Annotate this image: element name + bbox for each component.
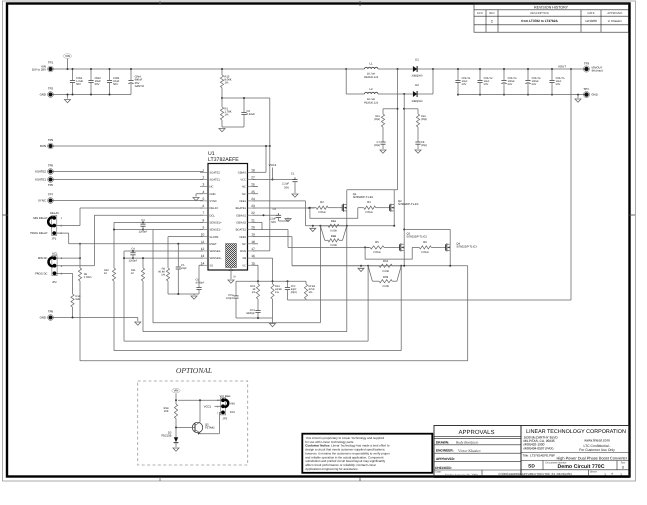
U1 left pins with numbers	[200, 171, 208, 173]
svg-text:SS: SS	[210, 264, 214, 267]
svg-text:9: 9	[203, 226, 205, 230]
svg-text:2200pF: 2200pF	[129, 259, 138, 262]
svg-text:FB: FB	[243, 257, 247, 260]
wire VEE1 pin24 route	[253, 200, 306, 202]
svg-text:GBIAS1: GBIAS1	[236, 214, 246, 217]
transistor Q2 Si7852DP-T1-E3	[386, 207, 389, 209]
svg-text:18: 18	[251, 240, 255, 244]
svg-text:R5: R5	[375, 241, 379, 244]
capacitor CIN4 680uF 35V SANYO	[130, 69, 132, 78]
wire Q5 base to divider	[176, 427, 195, 429]
svg-text:VIN: VIN	[65, 54, 70, 58]
diode D2 30BQ060	[413, 91, 417, 97]
capacitor COUT2	[479, 69, 481, 78]
svg-text:0.008: 0.008	[330, 230, 337, 233]
wire SENSE1+ pin8	[114, 221, 203, 223]
sense resistor R4B 0.008	[320, 226, 324, 241]
svg-text:APPROVED:: APPROVED:	[436, 457, 455, 461]
svg-text:ENGINEER:: ENGINEER:	[436, 449, 454, 453]
svg-text:L2: L2	[369, 87, 373, 91]
svg-text:C4: C4	[131, 247, 135, 250]
svg-text:0 Ohm: 0 Ohm	[365, 211, 373, 214]
svg-text:SLOPE: SLOPE	[210, 236, 219, 239]
svg-text:21: 21	[251, 218, 255, 222]
svg-text:16: 16	[251, 254, 255, 258]
wire divider down to RUN pin17	[269, 98, 271, 251]
svg-text:50V: 50V	[556, 83, 561, 86]
svg-text:TP5: TP5	[48, 163, 54, 167]
svg-text:Applications Engineering for a: Applications Engineering for assistance.	[305, 467, 358, 471]
svg-text:3: 3	[203, 183, 205, 187]
svg-text:R3: R3	[367, 201, 371, 204]
wire SS pin14	[199, 264, 203, 266]
resistor R8 60.4K	[166, 268, 169, 281]
svg-text:GND: GND	[210, 193, 216, 196]
wire switch node 2	[378, 93, 413, 95]
svg-text:0 Ohm: 0 Ohm	[318, 211, 326, 214]
svg-text:C:\ORCADWIN\CAPTURE\770C\770C_: C:\ORCADWIN\CAPTURE\770C\770C_01_REV0.DS…	[498, 472, 571, 476]
svg-text:SGATE1: SGATE1	[210, 179, 221, 182]
capacitor C2 2.2uF 50V	[278, 213, 280, 215]
wire input ground rail	[53, 94, 132, 96]
transistor Q1 Si7852DP-T1-E3	[339, 207, 342, 209]
svg-text:DCL: DCL	[210, 214, 216, 217]
test point TP9 RUN	[49, 144, 53, 148]
capacitor C6 0.22uF	[243, 98, 245, 110]
svg-text:www.linear.com: www.linear.com	[584, 439, 610, 443]
svg-text:VCC1: VCC1	[204, 405, 212, 409]
svg-text:CHECKED:: CHECKED:	[435, 466, 452, 470]
svg-text:PB2020.223: PB2020.223	[364, 101, 379, 104]
sense resistor R4A 0.008	[320, 225, 328, 227]
svg-text:C2: C2	[273, 208, 277, 211]
snubber resistor R15 (Opt)	[397, 108, 399, 110]
svg-text:BGATE2: BGATE2	[236, 229, 247, 232]
transistor Q4 Si7852DP-T1-E3	[442, 246, 445, 248]
svg-text:25: 25	[251, 190, 255, 194]
svg-text:NC: NC	[242, 193, 246, 196]
capacitor CIN2	[90, 69, 92, 78]
svg-text:PDZ15B: PDZ15B	[161, 435, 171, 438]
svg-text:Demo Circuit 770C: Demo Circuit 770C	[557, 464, 604, 470]
svg-text:REV: REV	[489, 12, 495, 15]
snubber capacitor C7 (Opt)	[382, 140, 384, 142]
capacitor C3 2200pF	[142, 221, 144, 223]
wire BGATE2 pin20 route to R5	[253, 229, 289, 231]
ground compensation	[272, 318, 274, 323]
svg-text:Friday, January 30, 2009: Friday, January 30, 2009	[445, 473, 478, 477]
svg-text:50V: 50V	[113, 83, 118, 86]
svg-text:100pF: 100pF	[226, 297, 234, 300]
wire divider junction right	[222, 97, 270, 99]
ground R8/C5 bus	[191, 296, 197, 299]
wire SENSE2+ pin13	[124, 257, 203, 259]
capacitor COUT3	[503, 69, 505, 78]
wire GBIAS2 pin21 stub	[253, 221, 263, 223]
svg-text:MIN DC: MIN DC	[38, 257, 48, 260]
svg-text:DRAWN:: DRAWN:	[436, 440, 449, 444]
svg-text:V. Khasiev: V. Khasiev	[608, 19, 623, 23]
resistor R14 10K	[175, 399, 177, 401]
optional dashed box	[138, 381, 248, 465]
svg-text:OPTIONAL: OPTIONAL	[176, 366, 212, 375]
svg-text:C3: C3	[141, 219, 145, 222]
svg-text:1: 1	[604, 473, 606, 477]
svg-text:TP1: TP1	[48, 60, 54, 64]
svg-text:TP6: TP6	[48, 183, 54, 187]
svg-text:50V: 50V	[484, 83, 489, 86]
svg-text:10V to 28V: 10V to 28V	[32, 68, 46, 72]
wire R7 left node to loop B	[367, 266, 369, 341]
wire FB bus	[273, 280, 307, 282]
svg-text:R6: R6	[423, 241, 427, 244]
wire Q4 drain	[449, 229, 451, 244]
ground C8	[415, 150, 421, 153]
wire FB pin16 to network	[253, 257, 273, 259]
border zone tick bottom	[359, 477, 361, 481]
border zone tick bottom 2	[159, 477, 161, 481]
svg-text:0: 0	[622, 465, 624, 469]
capacitor CC2 100pF	[235, 281, 237, 294]
test point TP4 GND	[584, 92, 588, 96]
resistor R13 82K	[56, 272, 72, 274]
svg-text:50V: 50V	[284, 186, 289, 189]
svg-text:SENSE1-: SENSE1-	[210, 229, 222, 232]
border zone tick left	[3, 214, 9, 216]
wire RSET pin11 line to JP1 pin3	[69, 243, 203, 245]
wire BGATE1 pin23 to R2	[253, 207, 315, 209]
wire JP3 pin3 connect	[218, 399, 221, 401]
svg-text:VIN: VIN	[174, 389, 179, 393]
svg-text:(Opt): (Opt)	[374, 118, 380, 121]
wire VOUT rail	[433, 68, 584, 70]
ground phase1 sense	[312, 226, 314, 228]
wire switch node 1	[378, 68, 413, 70]
svg-text:12/18/08: 12/18/08	[585, 19, 597, 23]
sense resistor R7B 0.008	[368, 266, 372, 281]
svg-text:DELAY: DELAY	[50, 211, 59, 215]
resistor RFB1 475K	[305, 281, 307, 284]
wire NC pin18 stub	[253, 243, 259, 245]
svg-text:For Customer Use Only: For Customer Use Only	[579, 448, 615, 452]
svg-text:22: 22	[251, 211, 255, 215]
svg-text:GND: GND	[40, 316, 46, 320]
wire RUN pin17 horizontal	[253, 250, 270, 252]
svg-text:DCL: DCL	[52, 251, 58, 255]
svg-text:4A (max): 4A (max)	[592, 69, 603, 73]
svg-text:D2: D2	[415, 83, 419, 87]
svg-text:APPROVALS: APPROVALS	[459, 429, 495, 436]
svg-text:GND: GND	[40, 93, 46, 97]
wire R3 to Q2 gate	[376, 207, 387, 209]
svg-text:PROG DELAY: PROG DELAY	[30, 232, 47, 235]
capacitor CIN3	[109, 69, 111, 78]
wire VEE2 pin19 route	[253, 236, 293, 238]
svg-text:(408)434-0507 (FAX): (408)434-0507 (FAX)	[524, 446, 554, 450]
border zone tick top	[359, 1, 361, 6]
svg-text:Sheet: Sheet	[590, 470, 597, 473]
wire R4 left node to loop A0	[319, 226, 321, 323]
svg-text:JP3: JP3	[223, 418, 228, 421]
svg-text:APPROVED: APPROVED	[607, 12, 622, 15]
svg-text:PZTA42: PZTA42	[205, 427, 215, 430]
capacitor C1 2.2uF 50V	[294, 177, 296, 179]
svg-text:PROG DC: PROG DC	[35, 272, 48, 275]
wire Q3 source	[403, 251, 405, 266]
svg-text:SANYO: SANYO	[135, 85, 144, 88]
resistor R6 0 Ohm	[412, 246, 419, 248]
resistor RC1 1K	[257, 280, 259, 282]
wire R6 to Q4 gate	[431, 246, 442, 248]
wire VIN rail	[53, 68, 347, 70]
svg-text:2200pF: 2200pF	[139, 231, 148, 234]
node divider junction	[221, 97, 223, 99]
wire DCL pin7 to JP2 pin2	[94, 214, 203, 216]
wire D2 cathode to VOUT rail	[432, 69, 434, 94]
svg-text:R4A: R4A	[331, 220, 336, 223]
svg-text:VOUT: VOUT	[558, 64, 566, 68]
wire JP1 pin3 to RSET line	[56, 232, 69, 234]
ground U1 pad	[228, 280, 234, 283]
wire sense loop D	[80, 360, 468, 362]
svg-text:Rudy Bonifacio: Rudy Bonifacio	[455, 441, 478, 445]
svg-text:TP2: TP2	[48, 86, 54, 90]
svg-text:RUN: RUN	[240, 250, 246, 253]
ground input rail	[67, 95, 69, 99]
svg-text:JP2: JP2	[52, 281, 57, 284]
svg-text:22pF: 22pF	[181, 267, 187, 270]
wire RFB1 to VOUT sense	[288, 299, 307, 301]
capacitor COUT1	[457, 69, 459, 78]
svg-text:VC: VC	[242, 264, 246, 267]
svg-text:SD: SD	[528, 464, 535, 470]
svg-text:14: 14	[201, 261, 205, 265]
diode D1 30BQ060	[413, 66, 417, 72]
U1 right pins with numbers	[248, 171, 256, 173]
svg-text:PB2020.223: PB2020.223	[364, 76, 379, 79]
wire phase2 sense node line	[292, 265, 468, 267]
svg-text:LT3782AEFE: LT3782AEFE	[208, 157, 239, 163]
svg-text:High Power Dual Phase Boost Co: High Power Dual Phase Boost Converter	[557, 456, 628, 461]
wire Q5 emitter to JP3 pin1	[199, 432, 201, 435]
test point TP2 GND	[49, 93, 53, 97]
resistor R15 8.06K	[221, 69, 223, 75]
test point TP1 VIN	[49, 67, 53, 71]
svg-text:NC: NC	[242, 186, 246, 189]
sense resistor R7A 0.008	[368, 265, 379, 267]
svg-text:5: 5	[203, 197, 205, 201]
svg-text:Si7852DP-T1-E3: Si7852DP-T1-E3	[407, 236, 428, 239]
svg-text:SGATE1: SGATE1	[35, 178, 47, 182]
wire VC bus	[236, 280, 273, 282]
svg-text:2: 2	[203, 175, 205, 179]
wire Q3/Q4 drain bus	[404, 228, 450, 230]
zener diode D3 PDZ15B	[175, 428, 177, 438]
wire Q5 collector to rail	[199, 400, 201, 414]
wire optional vin rail	[178, 399, 221, 401]
svg-text:R7A: R7A	[383, 260, 388, 263]
svg-text:11: 11	[201, 240, 205, 244]
svg-text:63V: 63V	[532, 83, 537, 86]
svg-text:R7B: R7B	[383, 276, 388, 279]
wire Q1 source to sense node	[346, 211, 348, 226]
wire Q3 drain	[403, 229, 405, 244]
wire output ground rail	[458, 94, 584, 96]
inductor L2 18.7uH PB2020.223	[365, 92, 379, 94]
svg-text:DATE: DATE	[588, 12, 595, 15]
border zone tick top 2	[159, 1, 161, 4]
title block main	[521, 426, 629, 478]
disclaimer notice box	[302, 434, 432, 473]
svg-text:Si7852DP-T1-E3: Si7852DP-T1-E3	[398, 203, 419, 206]
svg-text:24: 24	[251, 197, 255, 201]
wire C5 branch from RSET line	[177, 244, 179, 267]
ground output rail	[577, 94, 579, 96]
resistor R2 0 Ohm	[310, 207, 316, 209]
wire VC pin15 to network	[253, 264, 259, 266]
wire SENSE2- pin12	[124, 250, 203, 252]
resistor R9 0 Ohm	[79, 243, 81, 245]
svg-text:ECO: ECO	[477, 12, 483, 15]
wire Q1 drain to switch node bus	[346, 190, 348, 205]
svg-text:SENSE1+: SENSE1+	[210, 221, 223, 224]
revision history table	[474, 4, 629, 32]
transistor Q5 PZT2222A	[192, 422, 202, 432]
svg-text:R2: R2	[320, 201, 324, 204]
test point TP3 VOUT	[584, 67, 588, 71]
wire R2 to Q1 gate	[328, 207, 339, 209]
svg-text:NC: NC	[242, 243, 246, 246]
svg-text:DESCRIPTION: DESCRIPTION	[530, 12, 548, 15]
svg-text:1: 1	[203, 168, 205, 172]
svg-text:TP9: TP9	[48, 138, 54, 142]
svg-text:82K: 82K	[76, 298, 81, 301]
svg-text:Victor Khasiev: Victor Khasiev	[458, 449, 481, 453]
resistor R5 0 Ohm	[365, 246, 370, 248]
ground phase2 sense	[360, 266, 362, 268]
svg-text:0 Ohm: 0 Ohm	[421, 251, 429, 254]
svg-text:15V: 15V	[230, 410, 235, 414]
svg-text:0.008: 0.008	[382, 270, 389, 273]
svg-text:SYNC: SYNC	[38, 199, 46, 203]
svg-text:TP3: TP3	[584, 61, 590, 65]
svg-text:0.008: 0.008	[382, 285, 389, 288]
svg-text:R4B: R4B	[331, 235, 336, 238]
node RUN junction	[269, 145, 271, 147]
svg-text:1%: 1%	[225, 114, 229, 117]
wire Q2 source	[393, 211, 395, 226]
svg-text:SYNC: SYNC	[210, 200, 218, 203]
svg-text:SENSE2+: SENSE2+	[210, 257, 223, 260]
svg-text:GBIAS2: GBIAS2	[236, 221, 246, 224]
capacitor CIN1	[72, 69, 74, 78]
svg-text:REVISION HISTORY: REVISION HISTORY	[534, 6, 569, 10]
svg-text:from LT3782 to LT3782A: from LT3782 to LT3782A	[521, 19, 558, 23]
svg-text:D1: D1	[415, 58, 419, 62]
ground divider	[219, 129, 225, 132]
svg-text:6800pF: 6800pF	[246, 312, 255, 315]
svg-text:Title: LT3782AEFE.PBF: Title: LT3782AEFE.PBF	[523, 454, 556, 458]
svg-text:(Opt): (Opt)	[291, 291, 297, 294]
jumper JP2 DC select	[52, 256, 57, 276]
svg-text:Rev: Rev	[621, 461, 626, 464]
svg-text:(Opt): (Opt)	[374, 144, 380, 147]
svg-text:10K: 10K	[164, 410, 169, 413]
wire TP8 ground line	[53, 317, 138, 319]
wire R7 right node to loop C	[400, 266, 402, 351]
svg-text:DELAY: DELAY	[210, 207, 219, 210]
svg-text:JP1: JP1	[52, 238, 57, 241]
svg-text:GBIAS: GBIAS	[238, 171, 246, 174]
transistor Q3 Si7852DP-T1-E3	[396, 246, 399, 248]
svg-text:VCC1: VCC1	[269, 163, 277, 167]
svg-text:8: 8	[203, 218, 205, 222]
svg-text:28: 28	[251, 168, 255, 172]
wire SGATE2 to U1 pin1	[53, 171, 204, 173]
svg-text:TP4: TP4	[583, 87, 589, 91]
svg-text:of: of	[611, 473, 613, 476]
svg-text:SGATE2: SGATE2	[210, 171, 221, 174]
capacitor C5 4700pF soft-start	[198, 285, 200, 287]
svg-text:VIN: VIN	[230, 401, 235, 405]
svg-text:50V: 50V	[76, 83, 81, 86]
wire GBIAS pin28 to RUN line	[253, 171, 267, 173]
wire NC pin25 stub	[253, 193, 259, 195]
svg-text:30BQ060: 30BQ060	[412, 74, 424, 77]
svg-text:23: 23	[251, 204, 255, 208]
svg-text:4700pF: 4700pF	[196, 282, 205, 285]
svg-text:26: 26	[251, 183, 255, 187]
wire gate link BGATE2 to R6	[365, 247, 412, 259]
ground C7	[380, 150, 386, 153]
svg-text:27: 27	[251, 175, 255, 179]
wire VCC1 to JP3 pin2	[215, 405, 222, 407]
snubber capacitor C8 (Opt)	[417, 140, 419, 142]
svg-text:GND: GND	[592, 93, 598, 97]
ground TP8 line	[137, 318, 139, 322]
svg-text:15: 15	[251, 261, 255, 265]
wire DELAY pin6 to JP1 pin2	[80, 207, 203, 209]
svg-text:RUN: RUN	[40, 144, 46, 148]
svg-text:13: 13	[201, 254, 205, 258]
wire gate link BGATE1 to R3	[310, 208, 358, 219]
svg-text:RSET: RSET	[210, 243, 218, 246]
svg-text:Si7852DP-T1-E3: Si7852DP-T1-E3	[456, 246, 477, 249]
svg-text:VEE1: VEE1	[239, 200, 246, 203]
wire VCC pin27 to C1	[253, 178, 296, 180]
ground D3	[173, 448, 179, 451]
svg-text:50V: 50V	[271, 221, 276, 224]
wire phase1 sense node line	[306, 225, 395, 227]
resistor R10 10	[112, 268, 115, 281]
wire sense loop C	[114, 350, 401, 352]
resistor R11 10	[142, 258, 144, 268]
border zone tick right	[629, 214, 635, 216]
wire BGATE2 node	[364, 246, 366, 248]
svg-text:(Opt): (Opt)	[421, 118, 427, 121]
test point TP8 GND	[49, 316, 53, 320]
svg-text:0 Ohm: 0 Ohm	[373, 251, 381, 254]
wire Q4 source	[449, 251, 451, 266]
test point TP5 SGATE2	[49, 170, 53, 174]
inductor L1 18.7uH PB2020.223	[346, 68, 364, 70]
svg-text:(Opt): (Opt)	[421, 144, 427, 147]
wire SGATE1 to U1 pin2	[53, 179, 204, 181]
svg-text:TP7: TP7	[48, 192, 54, 196]
svg-text:17: 17	[251, 247, 255, 251]
svg-text:50V: 50V	[462, 83, 467, 86]
svg-text:SENSE2-: SENSE2-	[210, 250, 222, 253]
